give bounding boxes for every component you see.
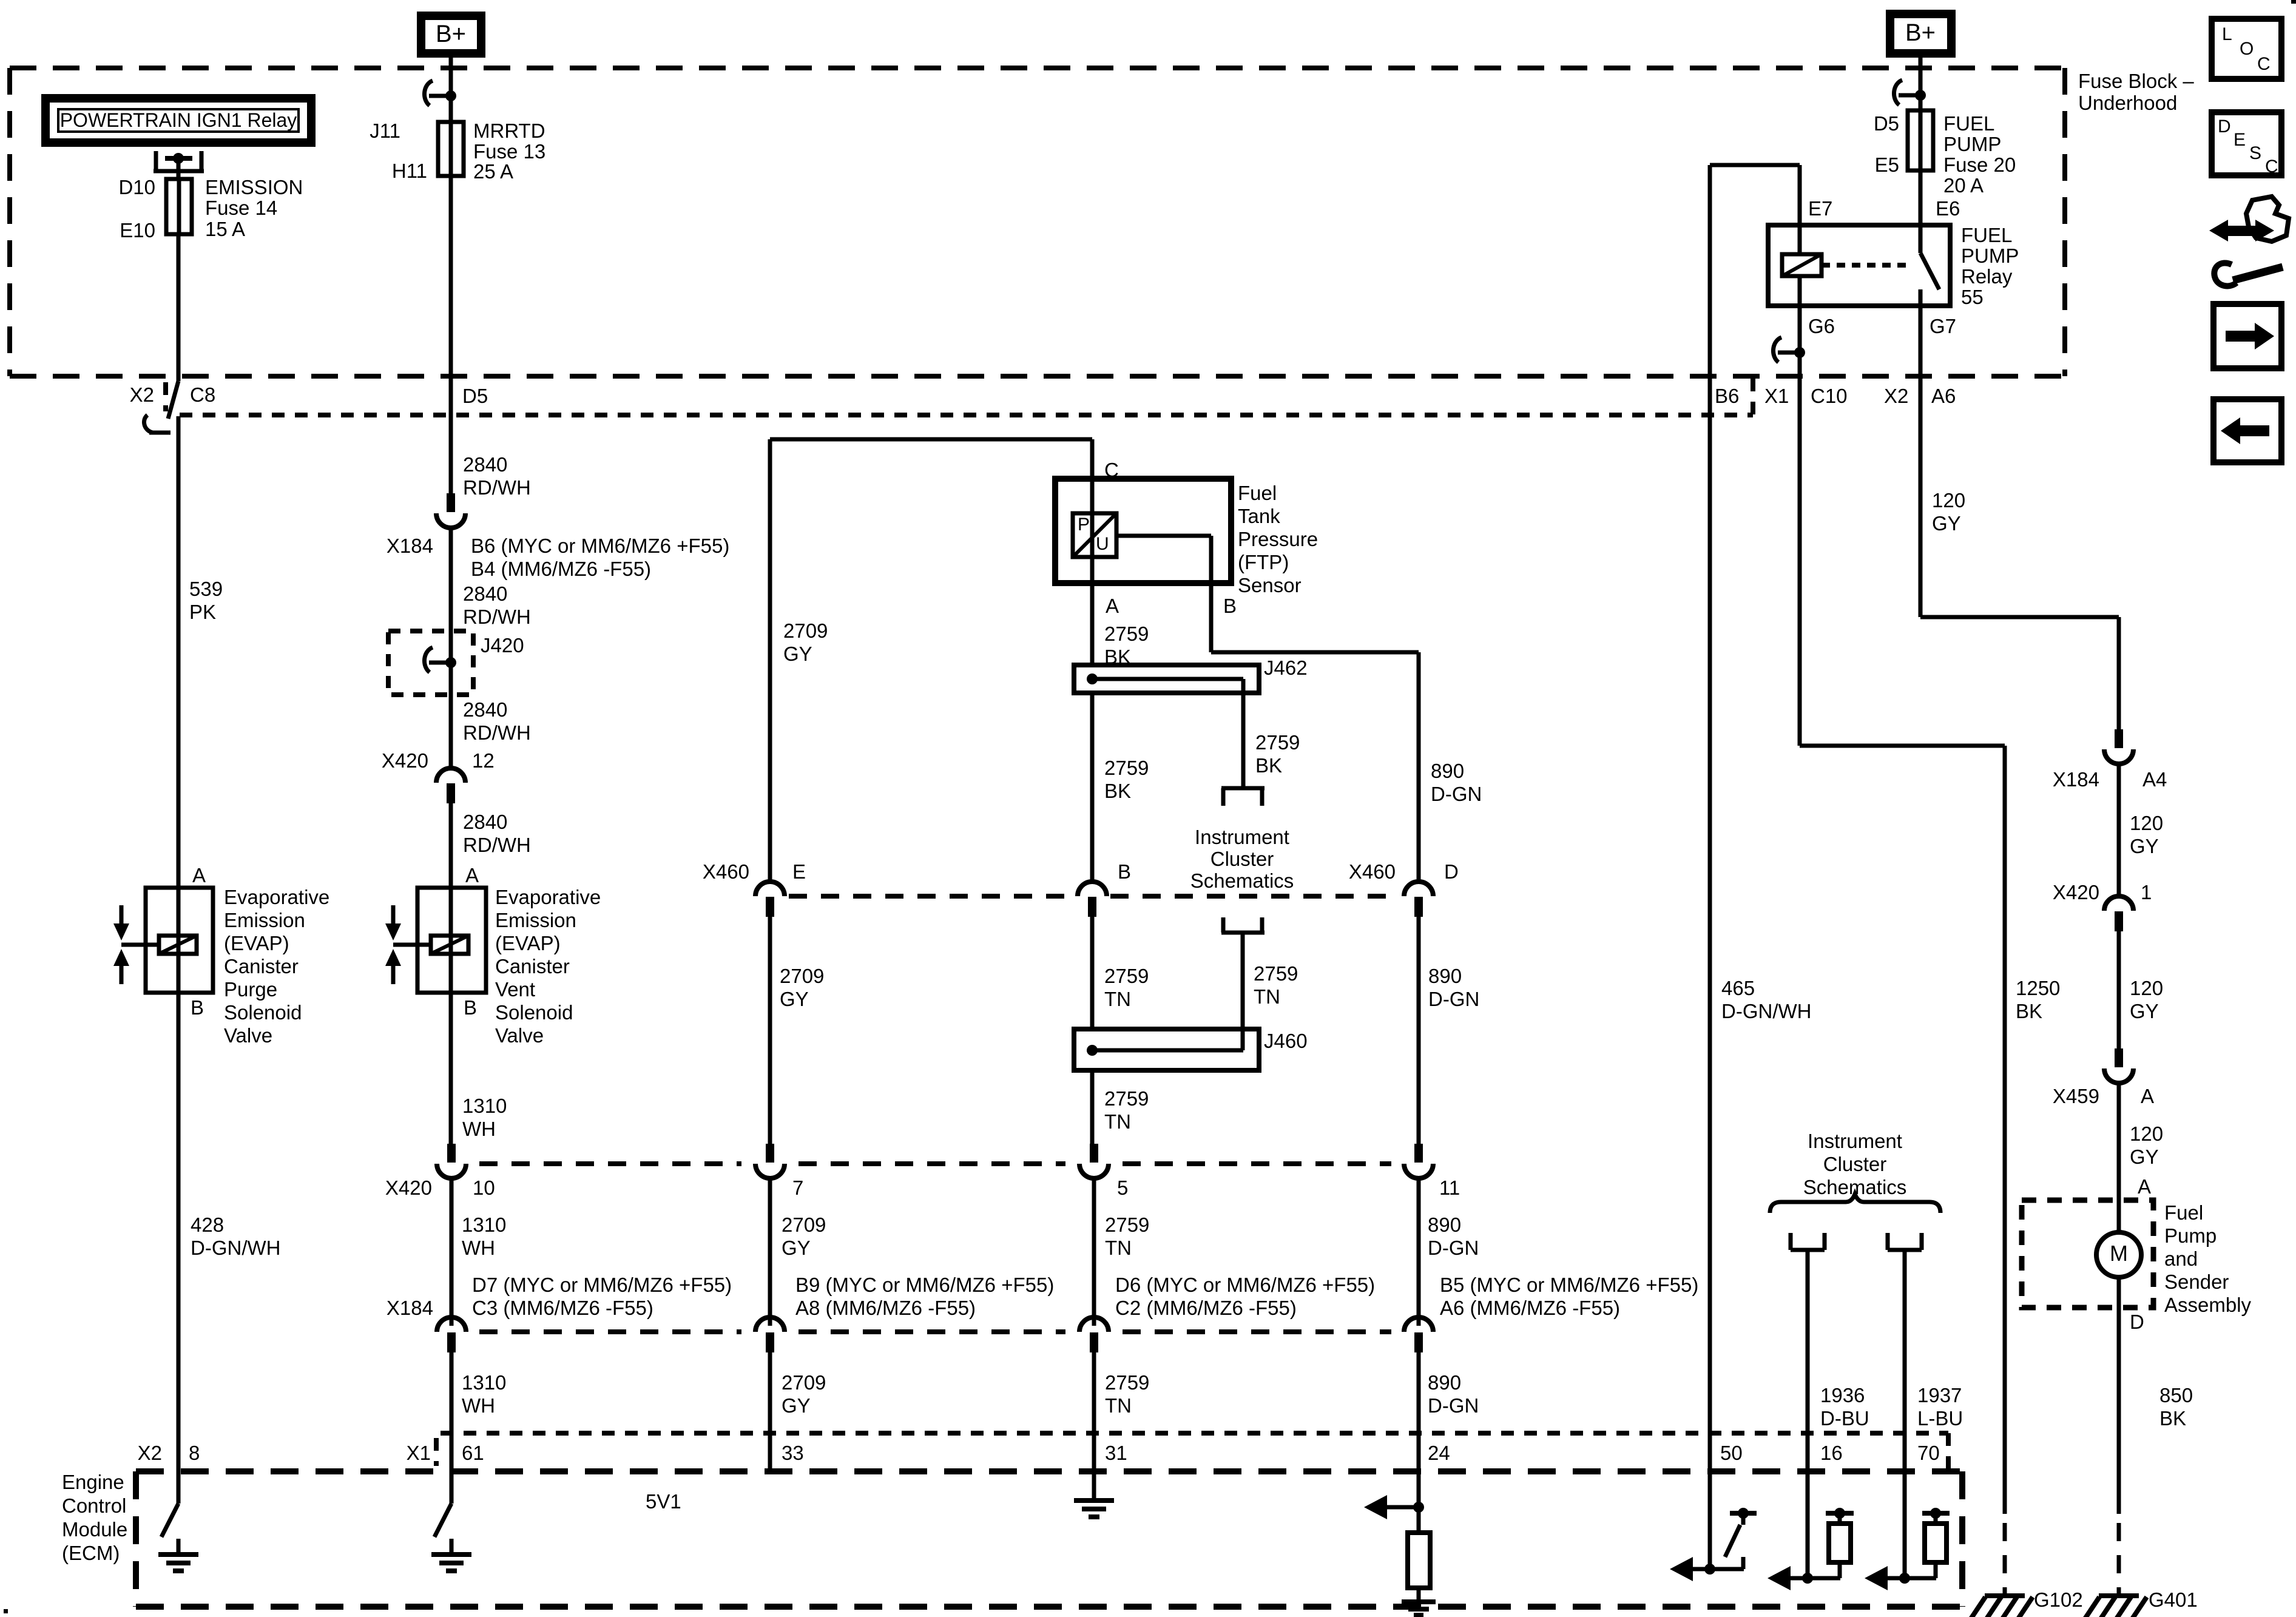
svg-text:Purge: Purge	[224, 978, 277, 1001]
svg-text:Engine: Engine	[62, 1471, 124, 1493]
svg-text:Cluster: Cluster	[1210, 848, 1274, 870]
svg-text:G6: G6	[1808, 315, 1835, 337]
svg-text:WH: WH	[462, 1118, 496, 1140]
svg-text:D7 (MYC or MM6/MZ6 +F55): D7 (MYC or MM6/MZ6 +F55)	[472, 1274, 732, 1296]
svg-text:Fuse 20: Fuse 20	[1943, 154, 2016, 176]
svg-text:465: 465	[1721, 977, 1755, 999]
svg-text:1: 1	[2141, 881, 2152, 903]
svg-text:Sender: Sender	[2164, 1271, 2229, 1293]
svg-text:D5: D5	[462, 385, 488, 407]
svg-text:BK: BK	[1255, 754, 1282, 777]
svg-text:C: C	[2265, 157, 2278, 177]
svg-text:2759: 2759	[1104, 1087, 1149, 1110]
svg-text:B9 (MYC or MM6/MZ6 +F55): B9 (MYC or MM6/MZ6 +F55)	[795, 1274, 1054, 1296]
svg-text:A8 (MM6/MZ6 -F55): A8 (MM6/MZ6 -F55)	[795, 1297, 976, 1319]
svg-text:FUEL: FUEL	[1961, 224, 2012, 246]
svg-text:B+: B+	[1905, 19, 1936, 46]
svg-text:RD/WH: RD/WH	[463, 834, 531, 856]
svg-text:BK: BK	[2159, 1407, 2186, 1430]
svg-text:2840: 2840	[463, 698, 507, 721]
svg-text:11: 11	[1439, 1176, 1460, 1199]
svg-text:WH: WH	[462, 1394, 495, 1417]
svg-text:X420: X420	[2053, 881, 2099, 903]
svg-text:Tank: Tank	[1238, 505, 1280, 527]
svg-text:X1: X1	[1764, 385, 1789, 407]
svg-text:C: C	[2257, 54, 2271, 74]
svg-text:X2: X2	[1884, 385, 1908, 407]
svg-text:E: E	[792, 860, 806, 883]
svg-text:X2: X2	[130, 383, 154, 406]
svg-text:539: 539	[189, 578, 223, 600]
svg-text:EMISSION: EMISSION	[205, 176, 303, 198]
svg-text:GY: GY	[780, 988, 809, 1010]
svg-text:Underhood: Underhood	[2078, 92, 2177, 114]
svg-text:PUMP: PUMP	[1943, 133, 2001, 155]
svg-text:Solenoid: Solenoid	[495, 1001, 573, 1024]
svg-text:Module: Module	[62, 1518, 127, 1541]
svg-text:890: 890	[1428, 965, 1462, 987]
svg-text:PUMP: PUMP	[1961, 245, 2019, 267]
svg-text:G102: G102	[2034, 1588, 2083, 1611]
svg-text:TN: TN	[1104, 1110, 1131, 1133]
svg-text:D-GN/WH: D-GN/WH	[1721, 1000, 1811, 1022]
svg-text:A: A	[1106, 595, 1119, 617]
svg-text:Canister: Canister	[495, 955, 570, 977]
svg-text:12: 12	[472, 749, 495, 772]
svg-text:Instrument: Instrument	[1195, 826, 1289, 848]
svg-text:J462: J462	[1264, 657, 1308, 679]
svg-text:D6 (MYC or MM6/MZ6 +F55): D6 (MYC or MM6/MZ6 +F55)	[1115, 1274, 1375, 1296]
svg-text:RD/WH: RD/WH	[463, 606, 531, 628]
svg-text:X184: X184	[387, 1297, 433, 1319]
svg-text:10: 10	[473, 1176, 495, 1199]
svg-text:TN: TN	[1104, 988, 1131, 1010]
svg-text:B: B	[464, 996, 477, 1019]
svg-text:1936: 1936	[1820, 1384, 1865, 1406]
svg-text:Sensor: Sensor	[1238, 574, 1302, 596]
svg-text:(EVAP): (EVAP)	[495, 932, 561, 954]
svg-text:B6: B6	[1715, 385, 1739, 407]
svg-text:2759: 2759	[1105, 1214, 1149, 1236]
svg-text:B6 (MYC or MM6/MZ6 +F55): B6 (MYC or MM6/MZ6 +F55)	[471, 535, 729, 557]
svg-text:Fuel: Fuel	[1238, 482, 1277, 504]
svg-text:2759: 2759	[1105, 1371, 1149, 1394]
svg-text:C8: C8	[190, 383, 215, 406]
svg-text:A6 (MM6/MZ6 -F55): A6 (MM6/MZ6 -F55)	[1440, 1297, 1620, 1319]
svg-text:Schematics: Schematics	[1190, 869, 1294, 892]
svg-text:X459: X459	[2053, 1085, 2099, 1107]
svg-text:Emission: Emission	[495, 909, 576, 931]
svg-text:2709: 2709	[783, 619, 828, 642]
svg-text:D-GN: D-GN	[1428, 1394, 1479, 1417]
svg-text:GY: GY	[2130, 1000, 2159, 1022]
svg-text:GY: GY	[2130, 835, 2159, 857]
svg-text:POWERTRAIN IGN1 Relay: POWERTRAIN IGN1 Relay	[60, 109, 297, 131]
svg-text:GY: GY	[782, 1394, 811, 1417]
svg-text:Assembly: Assembly	[2164, 1294, 2252, 1316]
svg-text:120: 120	[2130, 812, 2163, 834]
svg-text:Fuse Block –: Fuse Block –	[2078, 70, 2194, 92]
svg-text:120: 120	[2130, 1122, 2163, 1145]
svg-text:GY: GY	[1932, 512, 1961, 535]
svg-text:X460: X460	[1349, 860, 1396, 883]
svg-text:Vent: Vent	[495, 978, 535, 1001]
svg-text:Solenoid: Solenoid	[224, 1001, 302, 1024]
svg-text:Fuse 14: Fuse 14	[205, 197, 277, 219]
svg-text:2840: 2840	[463, 582, 507, 605]
svg-text:D10: D10	[118, 176, 155, 198]
svg-text:B: B	[1223, 595, 1237, 617]
svg-text:890: 890	[1428, 1371, 1461, 1394]
svg-text:G7: G7	[1930, 315, 1956, 337]
svg-text:Fuse 13: Fuse 13	[473, 140, 545, 163]
svg-text:A: A	[2138, 1175, 2151, 1198]
svg-text:2709: 2709	[780, 965, 824, 987]
svg-text:(EVAP): (EVAP)	[224, 932, 289, 954]
svg-text:S: S	[2249, 143, 2261, 163]
svg-text:B: B	[1118, 860, 1131, 883]
svg-text:A: A	[192, 864, 206, 886]
svg-text:120: 120	[2130, 977, 2163, 999]
svg-text:E10: E10	[120, 219, 155, 241]
svg-text:20 A: 20 A	[1943, 174, 1984, 197]
svg-text:2759: 2759	[1104, 757, 1149, 779]
svg-text:Evaporative: Evaporative	[495, 886, 601, 908]
svg-text:O: O	[2240, 39, 2254, 59]
svg-text:E: E	[2234, 130, 2246, 150]
svg-text:2759: 2759	[1254, 962, 1298, 985]
svg-text:D: D	[2130, 1311, 2144, 1333]
svg-text:TN: TN	[1254, 985, 1280, 1008]
svg-text:5: 5	[1117, 1176, 1128, 1199]
svg-text:C3 (MM6/MZ6 -F55): C3 (MM6/MZ6 -F55)	[472, 1297, 653, 1319]
svg-text:2709: 2709	[782, 1214, 826, 1236]
svg-text:D: D	[2218, 116, 2231, 137]
svg-text:TN: TN	[1105, 1394, 1132, 1417]
svg-text:X460: X460	[703, 860, 749, 883]
svg-text:2759: 2759	[1104, 623, 1149, 645]
svg-text:GY: GY	[2130, 1146, 2159, 1168]
svg-text:Relay: Relay	[1961, 265, 2013, 288]
svg-text:C10: C10	[1811, 385, 1848, 407]
svg-text:120: 120	[1932, 489, 1965, 511]
svg-text:GY: GY	[783, 643, 812, 665]
svg-text:RD/WH: RD/WH	[463, 476, 531, 499]
svg-text:Pressure: Pressure	[1238, 528, 1318, 550]
svg-text:C2 (MM6/MZ6 -F55): C2 (MM6/MZ6 -F55)	[1115, 1297, 1297, 1319]
svg-text:U: U	[1096, 534, 1109, 554]
svg-text:1310: 1310	[462, 1371, 506, 1394]
svg-text:24: 24	[1428, 1442, 1450, 1464]
svg-text:P: P	[1078, 515, 1090, 535]
svg-text:D-GN: D-GN	[1428, 988, 1479, 1010]
svg-text:2759: 2759	[1255, 731, 1300, 754]
svg-text:2840: 2840	[463, 811, 507, 833]
svg-text:70: 70	[1917, 1442, 1940, 1464]
svg-text:A4: A4	[2142, 768, 2167, 791]
svg-text:A6: A6	[1931, 385, 1956, 407]
svg-text:X420: X420	[382, 749, 428, 772]
svg-text:B5 (MYC or MM6/MZ6 +F55): B5 (MYC or MM6/MZ6 +F55)	[1440, 1274, 1698, 1296]
svg-text:Emission: Emission	[224, 909, 305, 931]
svg-text:B+: B+	[436, 21, 466, 47]
svg-text:X184: X184	[2053, 768, 2099, 791]
svg-text:D-GN: D-GN	[1431, 783, 1482, 805]
svg-text:D: D	[1444, 860, 1459, 883]
svg-text:Valve: Valve	[224, 1024, 272, 1047]
svg-text:RD/WH: RD/WH	[463, 721, 531, 744]
svg-text:A: A	[2141, 1085, 2154, 1107]
svg-text:(FTP): (FTP)	[1238, 551, 1289, 573]
svg-text:BK: BK	[1104, 780, 1131, 802]
svg-text:E5: E5	[1875, 154, 1899, 176]
svg-text:Fuel: Fuel	[2164, 1201, 2203, 1224]
svg-text:FUEL: FUEL	[1943, 112, 1994, 135]
svg-text:J420: J420	[481, 634, 524, 657]
svg-text:Canister: Canister	[224, 955, 299, 977]
svg-text:D-GN/WH: D-GN/WH	[191, 1237, 280, 1259]
svg-text:A: A	[465, 864, 479, 886]
svg-text:and: and	[2164, 1247, 2198, 1270]
svg-text:31: 31	[1105, 1442, 1127, 1464]
svg-text:E6: E6	[1936, 197, 1960, 220]
svg-text:D-GN: D-GN	[1428, 1237, 1479, 1259]
svg-text:2759: 2759	[1104, 965, 1149, 987]
svg-text:Valve: Valve	[495, 1024, 544, 1047]
svg-text:MRRTD: MRRTD	[473, 120, 545, 142]
svg-text:25 A: 25 A	[473, 160, 513, 183]
svg-text:16: 16	[1820, 1442, 1843, 1464]
svg-text:Control: Control	[62, 1494, 126, 1517]
svg-text:B: B	[191, 996, 204, 1019]
svg-text:WH: WH	[462, 1237, 495, 1259]
svg-text:BK: BK	[2016, 1000, 2042, 1022]
svg-text:X420: X420	[385, 1176, 432, 1199]
svg-text:61: 61	[462, 1442, 484, 1464]
svg-text:X184: X184	[387, 535, 433, 557]
svg-text:TN: TN	[1105, 1237, 1132, 1259]
svg-text:Instrument: Instrument	[1808, 1130, 1902, 1152]
svg-text:2840: 2840	[463, 453, 507, 476]
svg-text:890: 890	[1431, 760, 1464, 782]
svg-text:(ECM): (ECM)	[62, 1542, 120, 1564]
svg-text:M: M	[2110, 1241, 2128, 1266]
svg-text:G401: G401	[2149, 1588, 2198, 1611]
svg-text:D-BU: D-BU	[1820, 1407, 1869, 1430]
svg-text:L: L	[2222, 24, 2232, 44]
svg-text:8: 8	[189, 1442, 200, 1464]
svg-text:890: 890	[1428, 1214, 1461, 1236]
svg-text:Evaporative: Evaporative	[224, 886, 329, 908]
svg-text:33: 33	[782, 1442, 804, 1464]
svg-text:1310: 1310	[462, 1095, 507, 1117]
svg-text:H11: H11	[392, 160, 427, 182]
svg-text:J11: J11	[370, 120, 400, 142]
svg-text:428: 428	[191, 1214, 224, 1236]
svg-text:2709: 2709	[782, 1371, 826, 1394]
svg-text:J460: J460	[1264, 1030, 1308, 1052]
svg-text:L-BU: L-BU	[1917, 1407, 1963, 1430]
svg-text:50: 50	[1720, 1442, 1743, 1464]
svg-text:Cluster: Cluster	[1823, 1153, 1887, 1175]
svg-text:D5: D5	[1874, 112, 1899, 135]
svg-text:E7: E7	[1808, 197, 1832, 220]
svg-text:X1: X1	[407, 1442, 431, 1464]
svg-text:Pump: Pump	[2164, 1224, 2217, 1247]
svg-text:B4 (MM6/MZ6 -F55): B4 (MM6/MZ6 -F55)	[471, 558, 651, 580]
svg-text:GY: GY	[782, 1237, 811, 1259]
svg-text:X2: X2	[138, 1442, 162, 1464]
svg-text:1250: 1250	[2016, 977, 2060, 999]
svg-text:1937: 1937	[1917, 1384, 1962, 1406]
svg-text:5V1: 5V1	[646, 1490, 681, 1513]
svg-text:PK: PK	[189, 601, 216, 623]
svg-text:15 A: 15 A	[205, 218, 245, 240]
svg-text:1310: 1310	[462, 1214, 506, 1236]
svg-text:55: 55	[1961, 286, 1984, 308]
svg-text:850: 850	[2159, 1384, 2193, 1406]
svg-text:7: 7	[792, 1176, 803, 1199]
